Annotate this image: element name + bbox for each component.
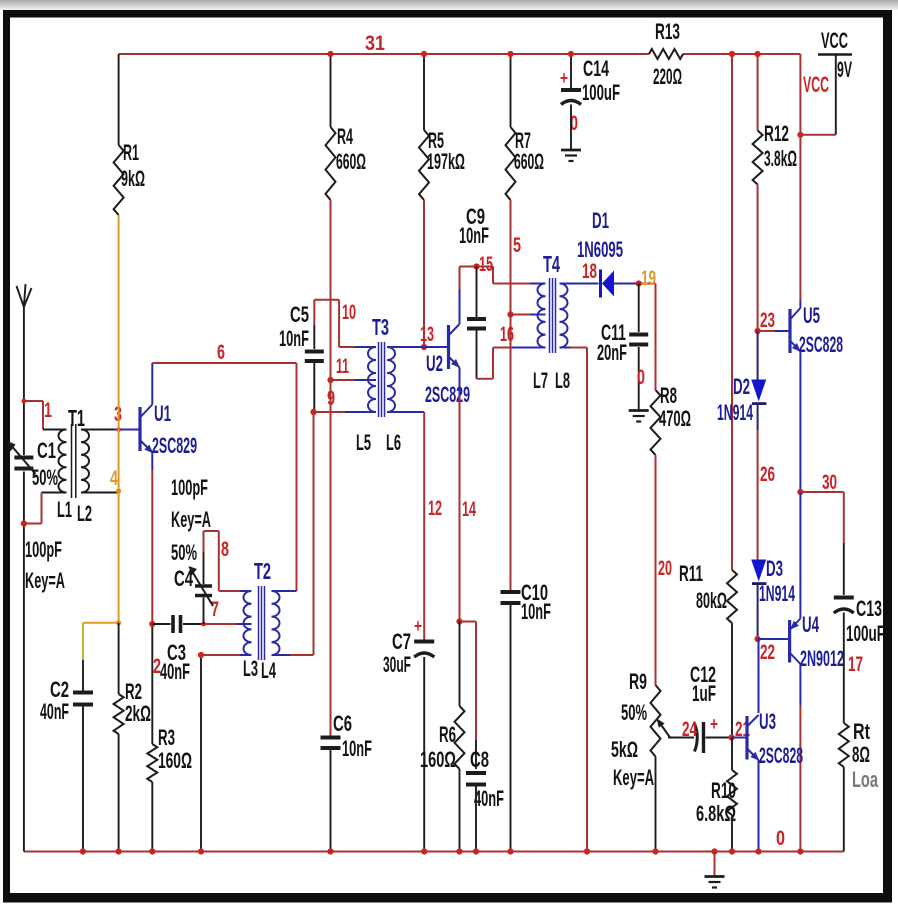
diode D1 [601, 270, 615, 298]
wire net 23 base [758, 330, 790, 332]
resistor R6 [455, 706, 465, 769]
resistor R10 [727, 770, 737, 815]
capacitor C10 [501, 590, 521, 594]
wire net 8 [204, 531, 252, 591]
wire net 11 R4 to C6 [330, 200, 332, 736]
svg-text:R10: R10 [711, 778, 736, 803]
svg-text:1N914: 1N914 [717, 400, 753, 425]
wire net 9 horizontal [310, 409, 376, 415]
svg-text:1: 1 [44, 399, 52, 422]
resistor R7 [506, 127, 516, 200]
resistor R11 [727, 570, 737, 623]
wire net 31 top bus [119, 53, 801, 55]
resistor R1 [114, 145, 124, 215]
svg-text:2SC829: 2SC829 [152, 433, 197, 458]
svg-text:Loa: Loa [852, 767, 878, 792]
wire U1 collector [151, 363, 153, 405]
wire R9 bottom [655, 757, 657, 852]
svg-text:D2: D2 [733, 374, 750, 399]
svg-text:T3: T3 [372, 314, 389, 340]
wire R12 top [755, 51, 761, 131]
capacitor C6 [321, 736, 341, 740]
svg-text:31: 31 [365, 32, 385, 55]
svg-text:5: 5 [513, 234, 521, 257]
svg-text:VCC: VCC [803, 72, 829, 97]
wire C14 bottom [570, 105, 572, 151]
svg-text:50%: 50% [32, 465, 58, 490]
svg-text:U5: U5 [803, 303, 820, 328]
wire R5 top lead [421, 51, 427, 130]
svg-text:160Ω: 160Ω [158, 748, 192, 773]
transistor U2 [449, 324, 460, 369]
svg-text:T2: T2 [254, 558, 271, 584]
wire R1 top lead [118, 54, 120, 145]
transistor U4 PNP [790, 619, 801, 665]
transistor U5 [790, 308, 801, 353]
transformer T1 [58, 424, 89, 498]
svg-text:10: 10 [342, 301, 356, 324]
wire net 22 [755, 584, 790, 643]
svg-text:20: 20 [658, 557, 672, 580]
svg-text:470Ω: 470Ω [659, 406, 691, 431]
svg-text:20nF: 20nF [597, 340, 627, 365]
wire T4 secondary top to D1 [560, 283, 599, 285]
wire U3 emitter to bus [758, 760, 760, 852]
svg-text:R8: R8 [660, 383, 677, 408]
wire C7 bottom [423, 657, 425, 852]
svg-text:T4: T4 [543, 251, 560, 277]
resistor R4 [326, 127, 336, 200]
node 11 stub [327, 377, 376, 383]
junction dots bottom bus [80, 848, 804, 854]
wire net 19 [614, 280, 656, 286]
svg-text:C1: C1 [37, 438, 56, 463]
antenna [17, 284, 32, 307]
capacitor C4 (variable) [189, 552, 214, 624]
wire net 1 tap [22, 399, 44, 430]
node 5 wire R7 lead [507, 51, 513, 127]
svg-text:100pF: 100pF [171, 475, 208, 500]
wire R11 bottom to node 21 [731, 623, 733, 738]
svg-text:10nF: 10nF [342, 736, 372, 761]
svg-text:1uF: 1uF [692, 681, 716, 706]
capacitor C9 [467, 267, 486, 379]
svg-text:14: 14 [462, 498, 476, 521]
wire net 5 [507, 200, 545, 318]
wire net 4 L2 bottom [81, 492, 119, 494]
transformer T2 [244, 586, 280, 660]
wire U2 collector / net 15 [460, 263, 546, 324]
resistor Rt [839, 723, 849, 767]
svg-text:50%: 50% [621, 700, 647, 725]
wire VCC to rail [797, 132, 835, 138]
svg-text:C6: C6 [333, 711, 352, 736]
svg-text:3.8kΩ: 3.8kΩ [764, 146, 797, 171]
wire R6 top lead [459, 622, 461, 707]
ground C14 [561, 149, 581, 152]
svg-text:Key=A: Key=A [613, 765, 654, 790]
svg-text:C8: C8 [470, 747, 489, 772]
svg-text:80kΩ: 80kΩ [696, 588, 727, 613]
svg-text:22: 22 [760, 641, 775, 664]
svg-text:1N6095: 1N6095 [577, 237, 623, 262]
transistor U3 [747, 715, 759, 761]
wire net 30 U5 emitter [797, 352, 803, 496]
svg-text:L1: L1 [57, 497, 72, 522]
svg-text:D1: D1 [592, 208, 609, 233]
svg-text:220Ω: 220Ω [653, 64, 682, 89]
wire C6 bottom [330, 750, 332, 852]
svg-text:100uF: 100uF [582, 80, 620, 105]
svg-text:23: 23 [760, 309, 775, 332]
wire net 20 to R9 [655, 455, 657, 685]
capacitor C7 polar [414, 642, 434, 658]
svg-text:+: + [710, 714, 718, 734]
wire R11 rail [729, 51, 735, 570]
svg-text:L3: L3 [243, 656, 258, 681]
svg-text:U3: U3 [759, 709, 776, 734]
wire net 4 to C2 [83, 620, 121, 690]
wire net 0 L1 bottom drop [21, 493, 67, 527]
svg-text:L5: L5 [356, 430, 371, 455]
svg-text:660Ω: 660Ω [336, 149, 366, 174]
wire net 14 branch to C8 [460, 622, 477, 770]
svg-text:L2: L2 [77, 501, 92, 526]
wire R2 top lead [118, 623, 120, 694]
capacitor C1 (variable) [7, 441, 36, 475]
wire T1 primary top [43, 429, 67, 431]
svg-text:5kΩ: 5kΩ [611, 737, 638, 762]
wire C14 top lead [568, 51, 574, 88]
svg-text:660Ω: 660Ω [514, 149, 544, 174]
wire net 21 [706, 734, 748, 740]
resistor R13 [649, 49, 683, 59]
wire R10 top [731, 738, 733, 771]
wire U5 collector blue [799, 300, 801, 308]
svg-text:C13: C13 [856, 596, 882, 621]
svg-text:R4: R4 [337, 124, 353, 149]
wire net 13 R5 lead [421, 200, 427, 350]
resistor R5 [419, 130, 429, 200]
svg-text:10nF: 10nF [459, 223, 489, 248]
svg-text:D3: D3 [766, 556, 783, 581]
svg-text:R1: R1 [123, 140, 139, 165]
svg-text:R11: R11 [679, 561, 703, 586]
svg-text:R9: R9 [629, 669, 647, 694]
svg-text:50%: 50% [171, 540, 197, 565]
svg-text:1N914: 1N914 [759, 581, 795, 606]
svg-text:24: 24 [682, 718, 697, 741]
svg-text:19: 19 [641, 267, 656, 290]
capacitor C13 polar [834, 596, 854, 600]
resistor R3 [147, 744, 157, 782]
wire net 4 orange R1 lead [116, 215, 121, 623]
svg-text:13: 13 [420, 323, 434, 346]
resistor R2 [114, 694, 124, 734]
ground bottom center [705, 852, 725, 888]
wire R6 bottom [459, 769, 461, 852]
wire net 0 bottom bus [24, 851, 844, 853]
wire net 3 base [81, 427, 140, 432]
capacitor C8 [466, 771, 486, 775]
svg-text:R13: R13 [655, 19, 680, 44]
wire net 28 U4 collector [799, 664, 801, 852]
wire U2 emitter / net 14 [456, 368, 462, 625]
capacitor C11 [629, 284, 648, 411]
svg-text:VCC: VCC [821, 28, 848, 53]
wire U3 collector riser [758, 639, 760, 713]
svg-text:160Ω: 160Ω [420, 747, 456, 772]
wire net 30 [800, 492, 843, 595]
svg-text:R12: R12 [764, 121, 789, 146]
svg-text:10nF: 10nF [279, 326, 309, 351]
svg-text:U1: U1 [154, 401, 171, 426]
resistor R12 [753, 131, 763, 185]
wire antenna to C1 [23, 307, 25, 455]
wire C1 bottom to bus [23, 472, 25, 852]
capacitor C14 polar [561, 88, 581, 92]
svg-text:L6: L6 [386, 430, 401, 455]
capacitor C3 [152, 615, 180, 633]
svg-text:10nF: 10nF [521, 599, 551, 624]
svg-text:9V: 9V [837, 57, 852, 82]
svg-text:100uF: 100uF [846, 621, 885, 646]
svg-text:+: + [414, 616, 422, 636]
diode D3 [751, 560, 766, 584]
svg-text:26: 26 [760, 463, 775, 486]
wire VCC rail right [799, 54, 801, 300]
svg-text:L8: L8 [555, 368, 570, 393]
svg-text:9kΩ: 9kΩ [121, 166, 145, 191]
svg-text:0: 0 [637, 366, 645, 389]
svg-text:2SC828: 2SC828 [759, 743, 803, 768]
wire T4 secondary bottom [560, 348, 588, 852]
wire net 20 [655, 455, 657, 685]
svg-text:197kΩ: 197kΩ [427, 149, 465, 174]
svg-text:30: 30 [822, 471, 837, 494]
transformer T4 [538, 278, 568, 353]
wire U1 emitter / net 2 [149, 453, 155, 745]
capacitor C12 polar [695, 722, 704, 753]
wire Rt bottom [843, 767, 845, 852]
svg-text:2kΩ: 2kΩ [125, 701, 151, 726]
svg-text:30uF: 30uF [383, 652, 411, 677]
wire net 9 L4 bottom riser [272, 412, 314, 655]
capacitor C2 [73, 691, 93, 695]
wire R10 bottom [731, 815, 733, 852]
transistor U1 [140, 405, 153, 454]
svg-text:U4: U4 [802, 612, 819, 637]
svg-text:6: 6 [217, 341, 225, 364]
wire net 23 R12 bottom [755, 185, 761, 335]
wire R4 top lead [327, 51, 333, 127]
svg-text:L7: L7 [533, 368, 548, 393]
svg-text:40nF: 40nF [474, 786, 504, 811]
svg-text:+: + [560, 68, 568, 88]
svg-text:8Ω: 8Ω [852, 742, 870, 767]
wire net 5 to C10 [510, 315, 512, 591]
svg-text:L4: L4 [261, 658, 276, 683]
svg-text:R6: R6 [439, 722, 456, 747]
capacitor C5 [305, 325, 324, 412]
svg-text:U2: U2 [426, 351, 443, 376]
svg-text:C4: C4 [174, 566, 194, 591]
wire C8 bottom [475, 787, 477, 852]
wire net 10 bracket [314, 300, 376, 347]
diode D2 [751, 331, 766, 404]
wire R3 bottom [151, 782, 153, 852]
wire T2 L4 top to net 6 [272, 590, 297, 592]
wire net 16 [477, 348, 546, 379]
wire net 12 [387, 412, 424, 640]
svg-text:T1: T1 [68, 405, 85, 431]
svg-text:16: 16 [500, 323, 514, 346]
svg-text:4: 4 [110, 467, 118, 490]
potentiometer R9 [651, 685, 695, 757]
svg-text:40nF: 40nF [160, 659, 190, 684]
svg-text:C14: C14 [583, 56, 609, 81]
svg-text:17: 17 [848, 653, 863, 676]
wire R2 bottom lead [118, 734, 120, 852]
svg-text:15: 15 [479, 253, 493, 276]
wire net 6 [152, 363, 296, 591]
wire C10 bottom [510, 605, 512, 852]
transformer T3 [368, 342, 395, 417]
svg-text:2SC829: 2SC829 [425, 382, 470, 407]
svg-text:7: 7 [211, 598, 219, 621]
resistor R8 [651, 390, 661, 455]
wire C2 bottom [82, 707, 84, 852]
wire net 17 [843, 613, 845, 724]
svg-text:100pF: 100pF [25, 537, 62, 562]
wire net 13 base [387, 346, 449, 348]
svg-text:C7: C7 [392, 629, 411, 654]
svg-text:2N9012: 2N9012 [800, 646, 844, 671]
svg-text:11: 11 [336, 355, 349, 378]
wire net 20 R8 top [655, 284, 657, 391]
svg-text:Rt: Rt [853, 719, 870, 744]
svg-text:6.8kΩ: 6.8kΩ [696, 801, 736, 826]
svg-text:8: 8 [221, 538, 229, 561]
VCC power symbol [818, 55, 852, 135]
wire net 7 [183, 622, 252, 627]
ground C11 [629, 409, 649, 412]
wire net 26 [757, 404, 759, 560]
svg-text:C5: C5 [290, 302, 309, 327]
svg-text:Key=A: Key=A [25, 568, 65, 593]
svg-text:40nF: 40nF [40, 699, 69, 724]
wire net 0 L3 bottom [198, 652, 252, 852]
svg-text:2SC828: 2SC828 [799, 332, 843, 357]
wire U4 emitter up [799, 492, 801, 619]
svg-text:R3: R3 [158, 725, 175, 750]
svg-text:12: 12 [428, 497, 442, 520]
svg-text:0: 0 [776, 827, 785, 850]
svg-text:18: 18 [582, 260, 597, 283]
svg-text:Key=A: Key=A [171, 507, 211, 532]
